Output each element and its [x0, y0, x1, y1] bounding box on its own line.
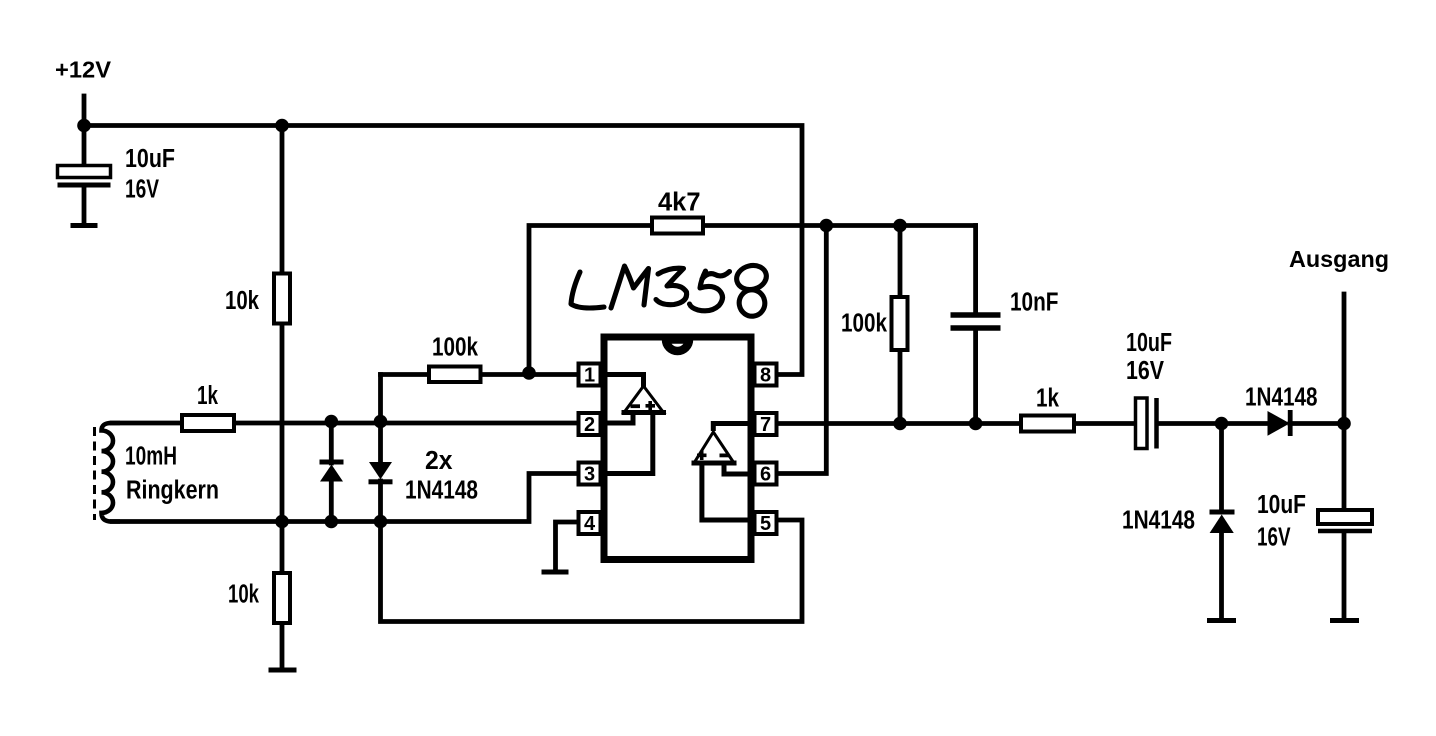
svg-text:10k: 10k: [225, 287, 260, 315]
svg-text:Ringkern: Ringkern: [126, 477, 219, 505]
svg-text:1: 1: [584, 365, 595, 387]
svg-text:16V: 16V: [125, 176, 159, 204]
svg-text:7: 7: [760, 414, 771, 436]
svg-text:Ausgang: Ausgang: [1289, 246, 1389, 272]
svg-text:10nF: 10nF: [1010, 289, 1059, 317]
svg-text:4: 4: [584, 513, 596, 535]
svg-text:10uF: 10uF: [125, 145, 175, 173]
svg-text:6: 6: [760, 464, 771, 486]
svg-text:100k: 100k: [432, 334, 479, 362]
svg-text:10k: 10k: [228, 581, 260, 609]
svg-text:4k7: 4k7: [658, 189, 701, 217]
svg-text:+12V: +12V: [55, 57, 111, 83]
svg-text:10uF: 10uF: [1257, 491, 1306, 519]
svg-text:100k: 100k: [841, 310, 888, 338]
svg-text:2x: 2x: [425, 447, 453, 475]
svg-text:16V: 16V: [1126, 357, 1164, 385]
svg-text:2: 2: [584, 414, 595, 436]
svg-text:5: 5: [760, 513, 771, 535]
svg-text:1k: 1k: [1036, 385, 1060, 413]
svg-text:8: 8: [760, 365, 771, 387]
svg-text:1k: 1k: [197, 382, 219, 410]
svg-text:1N4148: 1N4148: [405, 477, 478, 505]
svg-text:1N4148: 1N4148: [1122, 507, 1195, 535]
svg-text:16V: 16V: [1257, 524, 1291, 552]
svg-text:10uF: 10uF: [1126, 329, 1172, 357]
svg-text:1N4148: 1N4148: [1245, 384, 1318, 412]
svg-text:3: 3: [584, 464, 595, 486]
svg-text:10mH: 10mH: [125, 443, 177, 471]
